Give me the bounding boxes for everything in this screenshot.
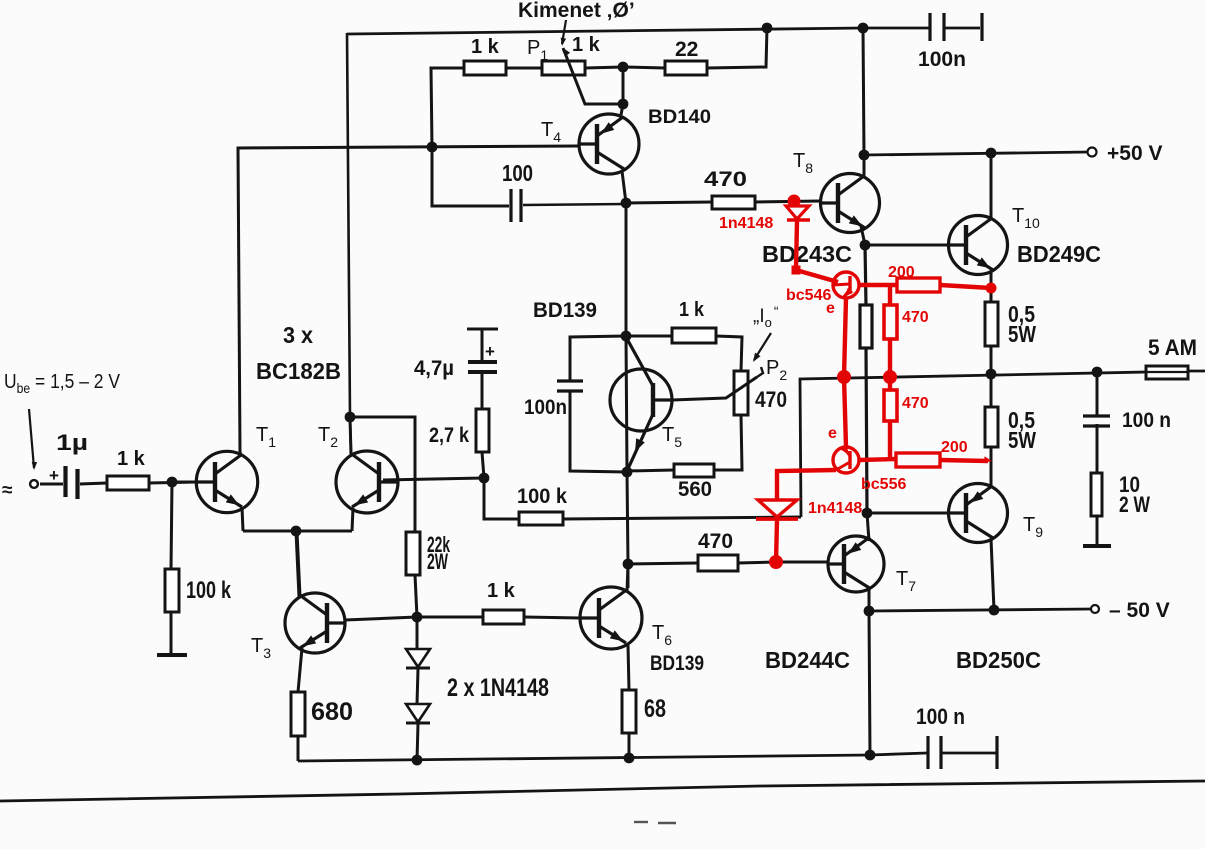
svg-text:1n4148: 1n4148 (719, 215, 773, 232)
svg-text:BD244C: BD244C (765, 647, 850, 673)
svg-text:100 k: 100 k (517, 485, 567, 508)
svg-text:BD249C: BD249C (1017, 241, 1101, 267)
svg-text:470: 470 (704, 168, 747, 191)
svg-text:100 n: 100 n (1122, 409, 1171, 432)
svg-text:200: 200 (941, 439, 968, 456)
svg-text:3 x: 3 x (283, 322, 313, 348)
svg-text:100 k: 100 k (186, 577, 231, 604)
svg-text:BC182B: BC182B (256, 358, 341, 384)
svg-text:1 k: 1 k (117, 448, 146, 470)
svg-text:2W: 2W (427, 549, 448, 574)
svg-text:2 x 1N4148: 2 x 1N4148 (447, 674, 549, 702)
svg-text:bc556: bc556 (861, 476, 906, 493)
svg-text:1 k: 1 k (487, 580, 516, 602)
svg-text:470: 470 (698, 530, 733, 553)
svg-text:100: 100 (502, 160, 533, 186)
svg-text:1 k: 1 k (572, 34, 601, 56)
svg-text:e: e (828, 425, 837, 442)
svg-text:4,7µ: 4,7µ (414, 357, 454, 380)
svg-text:BD250C: BD250C (956, 647, 1041, 673)
svg-text:5W: 5W (1008, 321, 1036, 347)
svg-text:470: 470 (755, 387, 787, 412)
svg-text:1 k: 1 k (679, 299, 705, 321)
svg-text:100n: 100n (524, 396, 567, 419)
svg-text:560: 560 (678, 478, 712, 501)
svg-text:e: e (826, 300, 835, 317)
svg-text:2,7 k: 2,7 k (429, 424, 469, 447)
svg-text:200: 200 (888, 264, 915, 281)
svg-text:+: + (485, 342, 495, 361)
svg-text:68: 68 (644, 695, 666, 723)
svg-text:22: 22 (675, 38, 698, 61)
svg-text:Kimenet ‚Ø’: Kimenet ‚Ø’ (518, 0, 635, 22)
svg-text:bc546: bc546 (786, 287, 831, 304)
svg-text:5W: 5W (1008, 427, 1036, 453)
svg-text:BD139: BD139 (533, 299, 597, 322)
svg-text:1 k: 1 k (471, 36, 500, 58)
svg-text:+: + (49, 466, 59, 485)
svg-text:BD243C: BD243C (762, 241, 852, 267)
svg-text:BD140: BD140 (648, 107, 711, 128)
svg-text:+50 V: +50 V (1107, 142, 1162, 165)
svg-text:5 AM: 5 AM (1148, 335, 1197, 360)
svg-text:470: 470 (902, 309, 929, 326)
svg-text:1n4148: 1n4148 (808, 500, 862, 517)
svg-text:BD139: BD139 (650, 652, 704, 675)
svg-text:≈: ≈ (2, 480, 13, 501)
svg-text:– 50 V: – 50 V (1109, 599, 1170, 622)
svg-text:2 W: 2 W (1119, 492, 1150, 517)
svg-text:100n: 100n (918, 48, 966, 71)
svg-text:100 n: 100 n (916, 704, 965, 729)
svg-text:1µ: 1µ (56, 430, 88, 455)
svg-text:680: 680 (311, 698, 353, 726)
svg-text:470: 470 (902, 395, 929, 412)
